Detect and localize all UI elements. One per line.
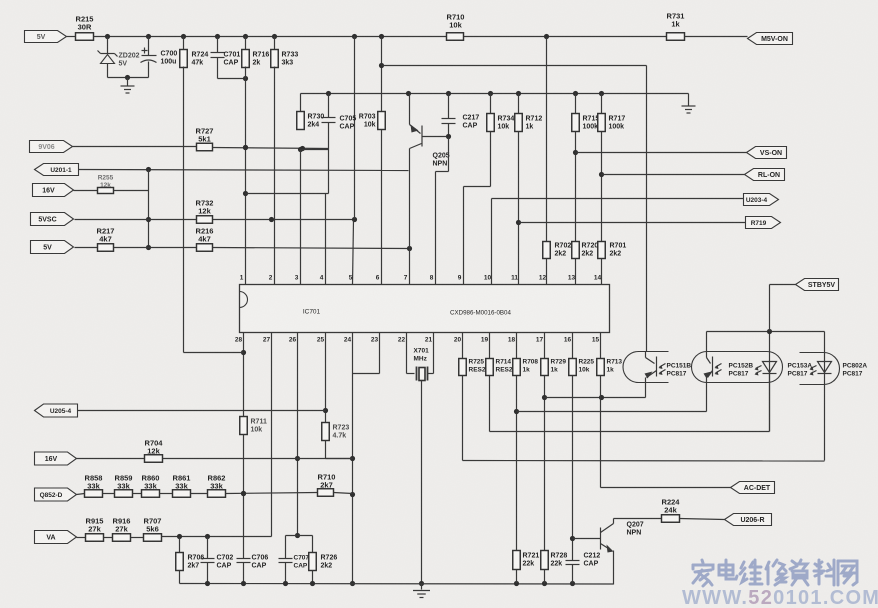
pin numbers 1-14	[240, 275, 602, 282]
ground at right of sub-rail	[682, 94, 696, 114]
capacitor C701	[211, 37, 241, 79]
resistor R729	[541, 333, 567, 376]
resistor R861	[160, 474, 191, 498]
resistor R215	[67, 15, 94, 41]
node 5V input tag	[25, 31, 67, 43]
wire main 5V rail	[94, 34, 667, 39]
optocoupler PC152B capsule	[691, 352, 782, 383]
wire crystal to ground rail	[419, 381, 424, 587]
node AC-DET tag	[731, 482, 775, 494]
label PC151B	[667, 363, 692, 378]
resistor R713	[597, 333, 623, 376]
node U203-4 tag	[744, 194, 779, 206]
wire 5VSC line to pin5 column	[213, 217, 358, 222]
node 9V06 tag	[30, 141, 73, 153]
wire R734 jog to pin 9	[464, 132, 491, 285]
resistor R225	[569, 333, 595, 376]
label PC802A	[843, 363, 868, 378]
wire 5V line to pin7 column	[213, 246, 413, 251]
wire R723 bottom to pin24 column	[326, 441, 353, 459]
wire R733 column to pin 2	[274, 67, 276, 285]
resistor R723	[322, 423, 350, 441]
ground at bottom rail	[413, 584, 430, 598]
wire U201 line to Q205 emitter column	[79, 167, 409, 172]
LED PC153A	[755, 332, 777, 432]
resistor R730	[297, 94, 325, 130]
optocoupler PC802A capsule	[800, 353, 840, 385]
wire zener-C700 bottom link	[108, 75, 149, 80]
wire pin 23 link	[353, 333, 380, 374]
wire bottom ground rail	[180, 581, 614, 586]
wire R724 column down	[183, 67, 185, 353]
node RL-ON tag	[745, 169, 785, 181]
resistor R715	[572, 94, 600, 132]
resistor R727	[73, 127, 214, 151]
wire pin 27 column to VA line	[271, 333, 273, 537]
wire C701 to R716 column	[218, 76, 249, 81]
wire pin5 column from rail	[353, 37, 355, 285]
wire Q205 base node	[422, 134, 452, 139]
resistor R725	[459, 333, 486, 376]
wire R703 to pin 6	[381, 130, 383, 285]
wire pin28 column to C706	[241, 435, 246, 559]
wire pin 24 column full	[350, 333, 355, 587]
wire R725 to PC802A cathode	[463, 374, 825, 462]
wire R717 bottom / RL-ON node	[599, 132, 604, 242]
watermark chinese characters	[693, 560, 857, 586]
wire VA line to pin27 column	[162, 534, 272, 539]
label PC152B	[729, 363, 754, 378]
resistor R716	[242, 37, 270, 68]
node R719 tag	[746, 217, 781, 229]
node M5V-ON tag	[748, 33, 793, 45]
wire R715 bottom / VS-ON node	[573, 132, 578, 242]
resistor R915	[77, 517, 104, 542]
node 16V tag upper	[33, 184, 74, 197]
resistor R708	[513, 333, 539, 376]
wire 16V branch up to U201 line	[146, 170, 151, 251]
wire pin 26 column	[295, 333, 300, 539]
capacitor C212	[566, 553, 601, 584]
wire bracket over C707 R726	[286, 536, 313, 559]
node U205-4 tag	[35, 404, 78, 417]
wire RL-ON line	[602, 174, 745, 176]
watermark url text	[682, 587, 878, 608]
wire Q852 line end	[334, 493, 353, 494]
wire STBY5V distribution	[707, 285, 825, 335]
wire pin 21 to crystal	[428, 333, 434, 374]
capacitor C702	[201, 537, 234, 584]
label PC153A	[788, 363, 813, 378]
wire R730 bottom junction to pin 3	[298, 147, 329, 285]
resistor R860	[133, 474, 160, 498]
resistor R858	[77, 474, 103, 498]
resistor R706	[176, 537, 205, 584]
resistor R724	[180, 37, 209, 68]
wire R714 to PC153A cathode	[490, 374, 770, 432]
resistor R731	[667, 12, 748, 41]
wire R716 column to pin 1	[243, 67, 248, 285]
node 16V tag lower	[35, 452, 77, 465]
resistor R728	[541, 551, 568, 584]
resistor R862	[191, 474, 226, 498]
crystal X701	[414, 348, 430, 381]
wire R225 column to Q207 base	[570, 376, 575, 561]
wire R712 column to pin 11 and R719 line	[516, 132, 746, 285]
wire jog C705 column to pin 4	[246, 194, 329, 285]
IC U701 body	[240, 285, 610, 333]
node STBY5V tag	[796, 279, 839, 291]
resistor R704	[77, 439, 164, 463]
resistor R717	[598, 94, 626, 132]
node Q852-D tag	[35, 488, 77, 501]
transistor PC152B phototransistor	[704, 332, 722, 385]
resistor R702	[543, 242, 572, 285]
transistor Q205	[410, 94, 450, 285]
wire 9V06 line to C705 column	[213, 145, 329, 151]
capacitor C706	[237, 555, 269, 584]
wire VS-ON line	[576, 152, 747, 154]
resistor R720	[572, 242, 599, 285]
resistor R726	[309, 553, 338, 584]
wire long link to PC151B collector	[382, 66, 647, 352]
resistor R710	[447, 13, 465, 41]
wire U203-4 from pin 10	[492, 199, 744, 285]
node 5VSC tag	[31, 213, 74, 226]
transistor PC151B phototransistor	[645, 352, 666, 383]
capacitor C705	[322, 94, 357, 194]
resistor R217	[75, 227, 115, 252]
resistor R255	[74, 175, 149, 194]
resistor R701	[598, 242, 627, 285]
resistor R714	[486, 333, 513, 376]
wire R708 node to PC152B emitter	[514, 376, 707, 551]
capacitor C700 electrolytic	[141, 37, 178, 78]
transistor Q207	[573, 519, 644, 585]
LED PC802A	[810, 332, 832, 376]
resistor R721	[513, 551, 540, 584]
wire R713 column to AC-DET	[601, 376, 731, 488]
ground below zener	[121, 78, 135, 94]
pin numbers 28-15	[235, 337, 600, 344]
node U201-1 tag	[35, 164, 79, 176]
wire pin 22 to crystal	[407, 333, 415, 374]
wire 16V line	[163, 458, 353, 460]
wire U205-4 line	[78, 410, 326, 412]
node U206-R tag	[725, 514, 772, 526]
resistor R707	[131, 517, 162, 542]
resistor R859	[103, 474, 133, 498]
resistor R733	[271, 37, 299, 68]
wire Q852 line mid	[226, 491, 318, 496]
wire rail branch at R703 column	[379, 37, 384, 112]
node 5V tag lower	[31, 241, 74, 254]
optocoupler PC151B capsule	[623, 352, 669, 383]
resistor R712	[515, 94, 543, 132]
zener diode ZD202	[98, 37, 140, 78]
node VA tag	[35, 531, 77, 544]
resistor R711	[240, 417, 267, 435]
resistor R734	[487, 94, 515, 132]
wire R729 node to PC151B emitter	[542, 376, 646, 551]
wire collector sub-rail	[301, 91, 689, 96]
wire pin 28 column	[184, 333, 247, 417]
resistor R216	[114, 227, 214, 252]
wire pin 25 column	[323, 333, 328, 423]
resistor R916	[104, 517, 131, 542]
resistor R732	[75, 199, 214, 224]
wire R702 column from rail	[546, 38, 548, 242]
node VS-ON tag	[747, 147, 787, 159]
resistor R224	[614, 498, 725, 523]
resistor R703	[359, 112, 385, 130]
resistor R710B	[318, 473, 336, 497]
capacitor C217	[442, 94, 480, 137]
wire base column jog to pin 8	[436, 137, 449, 285]
capacitor C707	[279, 555, 310, 584]
